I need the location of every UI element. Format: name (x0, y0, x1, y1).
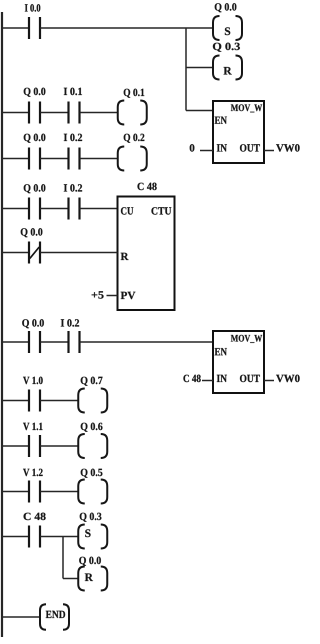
contact C48 (29, 526, 40, 548)
label Q 0.0 NC contact (21, 228, 43, 237)
label MOV_W title U1 (231, 104, 262, 112)
label Q 0.0 network4 (24, 184, 46, 193)
label Q 0.5 (81, 469, 103, 478)
pin EN U2 (215, 348, 227, 355)
value +5 at PV (92, 291, 104, 298)
wire network4b rail to NC contact Q0.0 (3, 252, 29, 254)
wire branch to MOV_W EN (186, 110, 213, 112)
wire contact to coil Q0.7 (40, 400, 78, 402)
contact V1.0 (29, 390, 40, 412)
contact I0.2 network3 (69, 148, 80, 170)
contact Q0.0 network5 (29, 331, 40, 353)
box MOV_W U2 (213, 331, 264, 393)
label V 1.0 (23, 377, 43, 384)
wire contact I0.2 to MOV_W U2 EN (80, 341, 213, 343)
label Q 0.0 above R coil network9 (79, 557, 101, 566)
wire network3 rail to contact Q0.0 (3, 158, 29, 160)
wire branch to R coil Q0.0 (63, 578, 79, 580)
wire contact I0.0 to S coil branch (40, 27, 213, 29)
wire branch to R coil (186, 67, 214, 69)
coil Q0.7 (78, 389, 107, 413)
label Q 0.0 network3 (24, 134, 46, 143)
pin CTU (151, 207, 171, 214)
wire network4 rail to contact Q0.0 (3, 208, 29, 210)
wire NC contact to R pin (40, 252, 117, 254)
pin IN U2 (217, 375, 227, 382)
label Q 0.2 (124, 134, 145, 143)
wire network5 rail to contact Q0.0 (3, 341, 29, 343)
wire network8 rail to contact V1.2 (3, 491, 29, 493)
wire contact I0.2 to coil Q0.2 (80, 158, 119, 160)
contact Q0.0 network3 (29, 148, 40, 170)
coil Q0.1 (118, 101, 147, 125)
wire network1 rail to contact I0.0 (3, 27, 29, 29)
box MOV_W U1 (213, 101, 264, 163)
label V 1.2 (23, 469, 43, 476)
label I 0.2 network5 (61, 319, 79, 326)
wire to contact I0.2 network4 (40, 208, 68, 210)
label Q 0.0 above S coil (215, 3, 237, 12)
wire +5 to PV pin (107, 295, 118, 297)
contact I0.2 network5 (69, 331, 80, 353)
value C 48 at IN U2 (183, 375, 200, 382)
wire contact C48 to S coil Q0.3 (40, 536, 78, 538)
label I 0.2 network3 (64, 134, 82, 141)
coil Q0.3 set (78, 525, 107, 549)
label Q 0.6 (81, 423, 103, 432)
pin OUT U2 (240, 375, 260, 382)
label I 0.2 network4 (64, 184, 82, 191)
label C 48 counter title (138, 183, 157, 190)
branch vertical node (185, 28, 187, 111)
wire OUT U2 to VW0 (264, 380, 274, 382)
wire contact I0.1 to coil Q0.1 (80, 112, 119, 114)
label VW0 net U2 out (276, 375, 299, 382)
label MOV_W title U2 (231, 335, 262, 343)
box counter C48 CTU (118, 197, 175, 311)
coil END (40, 604, 69, 630)
pin OUT U1 (240, 144, 260, 151)
wire to contact I0.2 network5 (40, 341, 68, 343)
wire network2 rail to contact Q0.0 (3, 112, 29, 114)
coil Q0.6 (78, 434, 107, 458)
wire network9 rail to contact C48 (3, 536, 29, 538)
wire contact I0.2 to CU pin (80, 208, 118, 210)
label Q 0.3 network9 (80, 513, 102, 522)
wire C48 to IN U2 (202, 380, 213, 382)
branch vertical network9 (62, 537, 64, 579)
label Q 0.0 network2 (24, 88, 46, 97)
pin IN U1 (217, 144, 227, 151)
label I 0.1 (64, 88, 82, 95)
left power rail (1, 12, 3, 637)
wire to contact I0.2 network3 (40, 158, 68, 160)
label Q 0.1 (124, 89, 145, 98)
label C 48 contact (24, 513, 46, 520)
contact Q0.0 network2 (29, 102, 40, 124)
wire network6 rail to contact V1.0 (3, 400, 29, 402)
pin PV (121, 292, 136, 299)
label Q 0.7 (81, 377, 103, 386)
wire network10 rail to END coil (3, 616, 40, 618)
wire contact to coil Q0.5 (40, 491, 78, 493)
value 0 at IN (190, 144, 195, 151)
coil Q0.5 (78, 480, 107, 504)
contact I0.1 (69, 102, 80, 124)
label Q 0.0 network5 (22, 319, 44, 328)
label Q 0.3 above R coil (213, 43, 240, 52)
pin R counter (121, 253, 129, 260)
wire contact to coil Q0.6 (40, 445, 78, 447)
label VW0 net U1 out (276, 144, 299, 151)
pin EN U1 (215, 117, 227, 124)
contact V1.2 (29, 481, 40, 503)
coil Q0.0 reset (78, 567, 107, 591)
wire 0 to IN U1 (200, 150, 213, 152)
contact Q0.0 normally closed (29, 242, 40, 264)
contact I0.0 (29, 17, 40, 39)
pin CU (121, 207, 133, 214)
wire to contact I0.1 (40, 112, 68, 114)
label END inside coil (46, 611, 65, 618)
label V 1.1 (23, 423, 42, 430)
wire network7 rail to contact V1.1 (3, 445, 29, 447)
contact I0.2 network4 (69, 198, 80, 220)
contact Q0.0 network4 (29, 198, 40, 220)
wire OUT U1 to VW0 (264, 150, 274, 152)
coil Q0.2 (118, 147, 147, 171)
coil Q0.0 set (213, 16, 242, 40)
contact V1.1 (29, 435, 40, 457)
label I 0.0 (25, 4, 40, 11)
coil Q0.3 reset (213, 56, 242, 80)
